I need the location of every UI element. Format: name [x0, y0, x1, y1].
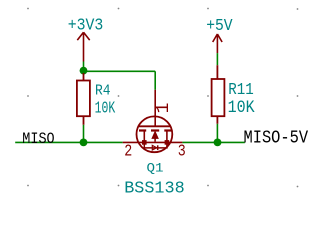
svg-text:MISO: MISO: [22, 130, 54, 148]
svg-text:3: 3: [178, 141, 186, 160]
wire MISO: [15, 141, 123, 143]
svg-text:+3V3: +3V3: [68, 16, 104, 35]
power symbol +3V3: [77, 32, 89, 61]
junction node +3V3/R4/gate: [80, 67, 88, 75]
resistor R4: [77, 73, 90, 125]
wire +5V to R11: [216, 53, 218, 65]
wire R4 to MISO node: [83, 125, 85, 143]
wire R11 to MISO-5V node: [216, 124, 218, 143]
svg-text:1: 1: [154, 103, 174, 114]
wire Q1 to MISO-5V: [182, 141, 244, 143]
svg-text:Q1: Q1: [147, 161, 164, 176]
wire gate riser (vertical): [154, 71, 156, 90]
svg-text:+5V: +5V: [206, 16, 233, 35]
svg-text:10K: 10K: [95, 98, 116, 117]
svg-text:R4: R4: [95, 84, 111, 100]
svg-text:2: 2: [124, 141, 132, 160]
svg-text:MISO-5V: MISO-5V: [244, 128, 309, 148]
resistor R11: [212, 65, 225, 124]
svg-text:BSS138: BSS138: [124, 179, 185, 198]
junction node MISO/R4: [80, 139, 88, 147]
wire +3V3 to junction: [83, 62, 85, 71]
power symbol +5V: [213, 34, 222, 53]
svg-text:10K: 10K: [228, 99, 256, 118]
svg-text:R11: R11: [228, 80, 254, 99]
junction node MISO-5V/R11: [214, 139, 222, 147]
transistor Q1: [123, 90, 183, 152]
wire junction to gate (horizontal): [84, 70, 156, 72]
